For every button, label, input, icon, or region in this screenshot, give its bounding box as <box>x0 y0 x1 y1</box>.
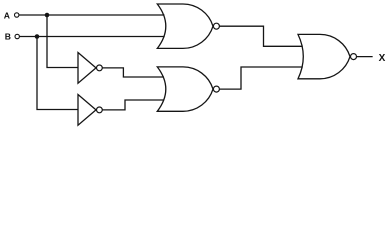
input terminal A <box>15 13 19 17</box>
NOR gate G3 bubble <box>351 54 357 60</box>
input terminal B <box>15 34 19 38</box>
wire G1 output to NOR G3 top input <box>220 26 302 46</box>
inverter N1 bubble <box>97 65 103 71</box>
svg-text:X: X <box>379 53 386 64</box>
svg-text:B: B <box>5 31 11 41</box>
svg-text:A: A <box>4 11 10 21</box>
inverter N2 bubble <box>97 107 103 113</box>
wire A branch down to inverter N1 input <box>47 15 78 68</box>
wire B branch down to inverter N2 input <box>37 37 78 110</box>
wire G2 output to NOR G3 bottom input <box>220 67 302 89</box>
inverter N2 triangle <box>78 95 96 126</box>
NOR gate G2 bubble <box>213 86 219 92</box>
wire A horizontal to NOR G1 top input <box>19 14 164 16</box>
wire N1 output to NOR G2 top input <box>103 68 164 77</box>
inverter N1 triangle <box>78 53 96 84</box>
NOR gate G1 body <box>157 4 213 48</box>
NOR gate G1 bubble <box>213 23 219 29</box>
wire G3 output <box>357 56 372 58</box>
wire N2 output to NOR G2 bottom input <box>103 100 164 110</box>
junction B node <box>35 34 40 39</box>
NOR gate G2 body <box>157 67 213 111</box>
junction A node <box>45 13 50 18</box>
NOR gate G3 body <box>298 34 350 78</box>
wire B horizontal to NOR G1 bottom input <box>20 36 164 38</box>
